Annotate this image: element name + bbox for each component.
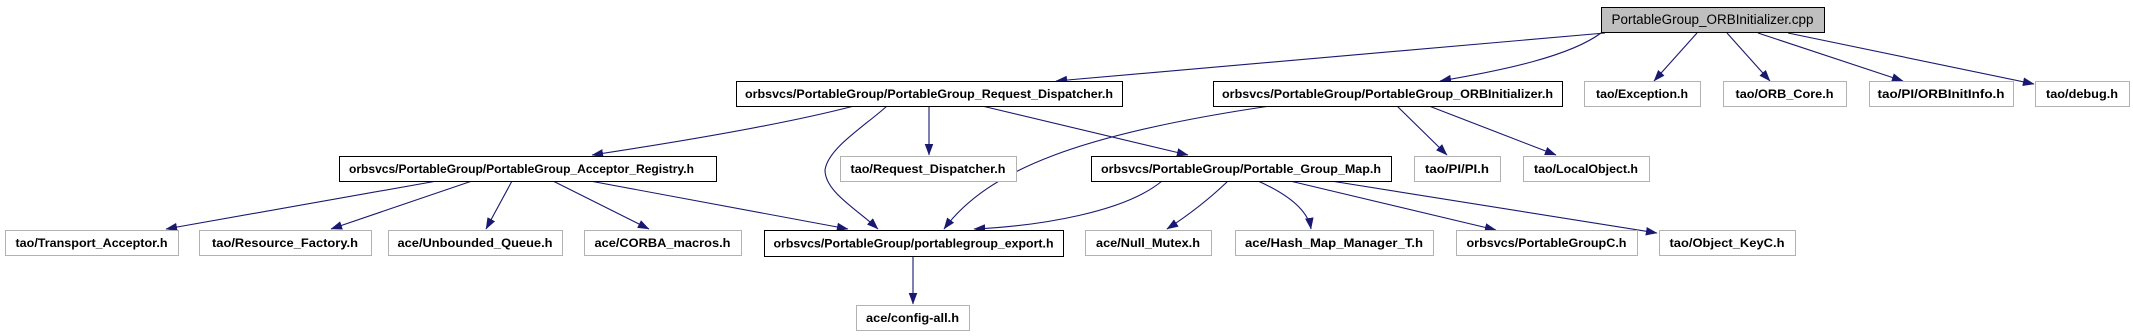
svg-text:orbsvcs/PortableGroup/Portable: orbsvcs/PortableGroup/PortableGroup_Requ… bbox=[745, 87, 1113, 101]
svg-text:tao/Request_Dispatcher.h: tao/Request_Dispatcher.h bbox=[851, 162, 1006, 176]
edge PortableGroup_Acceptor_Registry.h -> ace/Unbounded_Queue.h bbox=[486, 181, 512, 229]
svg-text:PortableGroup_ORBInitializer.c: PortableGroup_ORBInitializer.cpp bbox=[1612, 12, 1814, 27]
edge PortableGroup_ORBInitializer.h -> portablegroup_export.h bbox=[944, 106, 1270, 229]
svg-text:tao/Object_KeyC.h: tao/Object_KeyC.h bbox=[1670, 236, 1785, 250]
edge PortableGroup_Request_Dispatcher.h -> portablegroup_export.h bbox=[825, 106, 887, 229]
edge PortableGroup_ORBInitializer.cpp -> tao/debug.h bbox=[1788, 33, 2034, 84]
edge PortableGroup_ORBInitializer.cpp -> tao/Exception.h bbox=[1654, 33, 1697, 81]
edge PortableGroup_ORBInitializer.h -> tao/LocalObject.h bbox=[1429, 106, 1556, 155]
node tao/Resource_Factory.h bbox=[200, 231, 372, 256]
edge PortableGroup_Acceptor_Registry.h -> ace/CORBA_macros.h bbox=[553, 181, 649, 229]
edge PortableGroup_Request_Dispatcher.h -> Portable_Group_Map.h bbox=[982, 106, 1188, 155]
node tao/PI/ORBInitInfo.h bbox=[1870, 82, 2014, 107]
node tao/PI/PI.h bbox=[1415, 157, 1501, 182]
node ace/Unbounded_Queue.h bbox=[389, 231, 563, 256]
node orbsvcs/PortableGroup/PortableGroup_Request_Dispatcher.h bbox=[737, 82, 1123, 107]
edge PortableGroup_ORBInitializer.cpp -> PortableGroup_ORBInitializer.h bbox=[1440, 33, 1601, 81]
node orbsvcs/PortableGroup/portablegroup_export.h bbox=[765, 231, 1064, 257]
edge PortableGroup_Acceptor_Registry.h -> tao/Resource_Factory.h bbox=[331, 181, 472, 229]
svg-text:orbsvcs/PortableGroup/Portable: orbsvcs/PortableGroup/PortableGroup_ORBI… bbox=[1222, 87, 1553, 101]
edge Portable_Group_Map.h -> ace/Null_Mutex.h bbox=[1167, 181, 1228, 229]
svg-text:tao/Exception.h: tao/Exception.h bbox=[1596, 87, 1688, 101]
edge PortableGroup_Acceptor_Registry.h -> tao/Transport_Acceptor.h bbox=[166, 181, 437, 229]
edge PortableGroup_ORBInitializer.h -> tao/PI/PI.h bbox=[1397, 106, 1447, 155]
node ace/Null_Mutex.h bbox=[1086, 231, 1212, 256]
svg-text:orbsvcs/PortableGroup/Portable: orbsvcs/PortableGroup/Portable_Group_Map… bbox=[1101, 162, 1381, 176]
node tao/LocalObject.h bbox=[1524, 157, 1650, 182]
node orbsvcs/PortableGroupC.h bbox=[1457, 231, 1638, 256]
svg-text:orbsvcs/PortableGroup/Portable: orbsvcs/PortableGroup/PortableGroup_Acce… bbox=[349, 162, 694, 176]
edge PortableGroup_Request_Dispatcher.h -> PortableGroup_Acceptor_Registry.h bbox=[592, 106, 854, 155]
node tao/debug.h bbox=[2036, 82, 2130, 107]
svg-text:tao/ORB_Core.h: tao/ORB_Core.h bbox=[1736, 87, 1834, 101]
svg-text:orbsvcs/PortableGroupC.h: orbsvcs/PortableGroupC.h bbox=[1467, 236, 1627, 250]
node tao/Object_KeyC.h bbox=[1660, 231, 1796, 256]
svg-text:orbsvcs/PortableGroup/portable: orbsvcs/PortableGroup/portablegroup_expo… bbox=[774, 237, 1054, 251]
edge PortableGroup_Acceptor_Registry.h -> portablegroup_export.h bbox=[590, 181, 848, 229]
svg-text:tao/PI/PI.h: tao/PI/PI.h bbox=[1425, 162, 1489, 176]
svg-text:ace/CORBA_macros.h: ace/CORBA_macros.h bbox=[595, 236, 731, 250]
svg-text:tao/debug.h: tao/debug.h bbox=[2046, 87, 2118, 101]
edge Portable_Group_Map.h -> ace/Hash_Map_Manager_T.h bbox=[1258, 181, 1311, 229]
edge Portable_Group_Map.h -> portablegroup_export.h bbox=[974, 181, 1162, 229]
svg-text:ace/Hash_Map_Manager_T.h: ace/Hash_Map_Manager_T.h bbox=[1245, 236, 1423, 250]
svg-text:tao/Transport_Acceptor.h: tao/Transport_Acceptor.h bbox=[16, 236, 168, 250]
node orbsvcs/PortableGroup/PortableGroup_ORBInitializer.h bbox=[1214, 82, 1563, 107]
edge PortableGroup_Request_Dispatcher.h -> tao/Request_Dispatcher.h bbox=[928, 106, 930, 155]
node PortableGroup_ORBInitializer.cpp (root) bbox=[1602, 8, 1825, 33]
edge Portable_Group_Map.h -> orbsvcs/PortableGroupC.h bbox=[1290, 181, 1496, 230]
edge portablegroup_export.h -> ace/config-all.h bbox=[912, 256, 914, 304]
node tao/Exception.h bbox=[1585, 82, 1701, 107]
node orbsvcs/PortableGroup/Portable_Group_Map.h bbox=[1092, 157, 1392, 182]
node ace/Hash_Map_Manager_T.h bbox=[1236, 231, 1434, 256]
node orbsvcs/PortableGroup/PortableGroup_Acceptor_Registry.h bbox=[340, 157, 717, 182]
node tao/Request_Dispatcher.h bbox=[841, 157, 1017, 182]
node tao/ORB_Core.h bbox=[1724, 82, 1847, 107]
node tao/Transport_Acceptor.h bbox=[6, 231, 179, 256]
svg-text:ace/config-all.h: ace/config-all.h bbox=[866, 311, 959, 325]
edge PortableGroup_ORBInitializer.cpp -> tao/PI/ORBInitInfo.h bbox=[1758, 33, 1903, 81]
svg-text:tao/Resource_Factory.h: tao/Resource_Factory.h bbox=[212, 236, 358, 250]
svg-text:ace/Unbounded_Queue.h: ace/Unbounded_Queue.h bbox=[398, 236, 553, 250]
node ace/config-all.h bbox=[857, 306, 970, 331]
edge Portable_Group_Map.h -> tao/Object_KeyC.h bbox=[1331, 181, 1657, 233]
svg-text:tao/LocalObject.h: tao/LocalObject.h bbox=[1534, 162, 1638, 176]
edge PortableGroup_ORBInitializer.cpp -> tao/ORB_Core.h bbox=[1727, 33, 1770, 81]
node ace/CORBA_macros.h bbox=[585, 231, 742, 256]
svg-text:tao/PI/ORBInitInfo.h: tao/PI/ORBInitInfo.h bbox=[1878, 87, 2005, 101]
svg-text:ace/Null_Mutex.h: ace/Null_Mutex.h bbox=[1096, 236, 1200, 250]
edge PortableGroup_ORBInitializer.cpp -> PortableGroup_Request_Dispatcher.h bbox=[1056, 33, 1605, 81]
